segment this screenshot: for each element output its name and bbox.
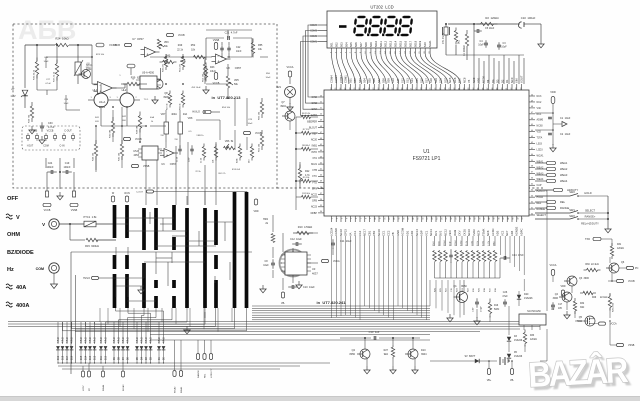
svg-text:R60 10k: R60 10k xyxy=(259,111,261,120)
ground C18 xyxy=(474,317,480,325)
svg-text:47: 47 xyxy=(320,132,322,134)
svg-text:47kΩ: 47kΩ xyxy=(100,337,103,343)
svg-text:1.2V: 1.2V xyxy=(10,94,16,98)
resistor R17 1.17k xyxy=(488,236,492,292)
svg-text:DV1: DV1 xyxy=(434,230,438,236)
misc analog wires 2 xyxy=(46,30,268,140)
svg-text:VCCB: VCCB xyxy=(47,130,54,133)
svg-text:71: 71 xyxy=(411,88,413,90)
svg-text:S13: S13 xyxy=(405,78,409,83)
svg-text:FTA: FTA xyxy=(313,157,318,160)
resistor R25 200&#937; xyxy=(438,236,442,292)
svg-text:R37 22.1k: R37 22.1k xyxy=(54,71,56,82)
ground top-right xyxy=(538,40,544,48)
svg-text:R31: R31 xyxy=(617,244,622,246)
svg-text:VCCB: VCCB xyxy=(135,138,142,141)
ground BZ1 xyxy=(287,103,293,111)
resistor C19 27nF xyxy=(449,236,453,292)
svg-text:R49: R49 xyxy=(178,44,183,47)
svg-text:39: 39 xyxy=(531,160,533,162)
svg-text:S18: S18 xyxy=(429,78,433,83)
buzzer BZ1 xyxy=(276,66,295,104)
diode D9 ladder xyxy=(112,346,116,363)
svg-text:C21 4.7nF: C21 4.7nF xyxy=(225,31,238,35)
svg-text:33: 33 xyxy=(531,195,533,197)
svg-text:S018: S018 xyxy=(413,40,417,47)
svg-text:FS9721 LP1: FS9721 LP1 xyxy=(413,156,441,162)
LCD segment pin S07 xyxy=(359,42,363,54)
svg-text:83: 83 xyxy=(468,88,470,90)
rotary switch contact bar x246 xyxy=(245,192,249,308)
terminal REL xyxy=(535,200,566,204)
wires u3 block xyxy=(273,233,333,290)
svg-text:S06: S06 xyxy=(354,42,358,47)
wire fan LCD to U1 xyxy=(332,54,461,85)
svg-text:VSSB: VSSB xyxy=(143,165,150,168)
diode D1 ladder xyxy=(157,346,161,363)
svg-text:R8 80k2: R8 80k2 xyxy=(302,145,311,147)
svg-text:S20: S20 xyxy=(423,42,427,47)
svg-text:WEA1: WEA1 xyxy=(180,386,183,393)
svg-text:HZ/DUTY: HZ/DUTY xyxy=(211,368,213,378)
resistor R18 0.09k xyxy=(482,236,486,292)
svg-text:INB1: INB1 xyxy=(312,145,318,148)
svg-text:81: 81 xyxy=(459,88,461,90)
svg-text:R16: R16 xyxy=(494,305,499,307)
svg-text:S04: S04 xyxy=(363,78,367,83)
svg-text:U4-A: U4-A xyxy=(99,100,106,104)
svg-text:42: 42 xyxy=(531,142,533,144)
terminal WEA1 xyxy=(535,161,568,165)
op-amp U8 OP07 xyxy=(212,54,242,70)
svg-text:SW2: SW2 xyxy=(569,214,575,218)
svg-text:R32: R32 xyxy=(580,303,585,305)
svg-text:VvDC: VvDC xyxy=(472,229,476,236)
rotary switch contact bar x127 xyxy=(125,205,129,308)
ground c30 xyxy=(39,136,45,144)
U1 right pins xyxy=(529,94,547,217)
labels connector bottom xyxy=(27,145,65,148)
LCD pin COM1 xyxy=(310,41,327,44)
resistor R35 68k xyxy=(110,117,115,138)
svg-text:40A: 40A xyxy=(150,116,154,119)
svg-text:+: + xyxy=(166,153,168,157)
svg-text:BEEPER: BEEPER xyxy=(307,120,317,123)
capacitor C22 10nF xyxy=(220,45,242,53)
resistor R40 22.1k xyxy=(160,55,187,64)
ground right cluster xyxy=(564,311,570,319)
LCD segment pin S010 xyxy=(374,40,378,53)
svg-text:VR7: VR7 xyxy=(161,113,166,116)
svg-text:22.1kΩ: 22.1kΩ xyxy=(600,297,608,299)
svg-text:C30: C30 xyxy=(48,122,53,125)
svg-text:35: 35 xyxy=(320,205,322,207)
wire mid rail y57 xyxy=(150,56,212,58)
svg-text:NC18: NC18 xyxy=(339,229,343,236)
resistor R28 230k xyxy=(608,294,614,313)
svg-text:3904: 3904 xyxy=(421,353,427,356)
svg-text:COM: COM xyxy=(36,267,44,271)
svg-text:AD2: AD2 xyxy=(410,230,414,236)
svg-text:NC3: NC3 xyxy=(537,95,542,98)
svg-text:49: 49 xyxy=(320,120,322,122)
switch SW2 HOLD xyxy=(535,190,608,197)
resistors U1 left feed xyxy=(296,113,318,199)
svg-text:80: 80 xyxy=(454,88,456,90)
resistor R45 10k xyxy=(119,140,124,161)
svg-text:R54 10k: R54 10k xyxy=(222,107,231,109)
resistor R21 0.99&#937; xyxy=(460,236,464,292)
terminal VDD cluster xyxy=(560,285,565,296)
rotary switch contact bar x205 xyxy=(203,208,207,308)
LCD segment pin S04 xyxy=(344,42,348,54)
resistor R1 200k xyxy=(463,30,469,56)
resistor R52 10k xyxy=(191,44,205,59)
LCD segment pin S01 xyxy=(330,42,334,54)
svg-text:R22: R22 xyxy=(305,170,310,173)
svg-text:470pF: 470pF xyxy=(481,305,483,312)
svg-text:VCCB: VCCB xyxy=(213,82,220,85)
svg-text:R12 80k: R12 80k xyxy=(302,193,311,195)
svg-text:75: 75 xyxy=(430,88,432,90)
svg-text:HC6: HC6 xyxy=(453,77,457,83)
svg-text:400A: 400A xyxy=(171,113,177,116)
svg-text:Q3 3906: Q3 3906 xyxy=(579,277,590,280)
svg-text:VR6 5k: VR6 5k xyxy=(225,140,234,143)
wire Q8 collector xyxy=(160,68,162,80)
svg-text:VR8: VR8 xyxy=(188,117,193,120)
svg-text:56: 56 xyxy=(340,88,342,90)
svg-text:ACDC: ACDC xyxy=(491,228,495,236)
labels connector top xyxy=(31,130,73,133)
svg-text:C24: C24 xyxy=(48,162,53,165)
svg-text:VC1: VC1 xyxy=(424,230,428,236)
svg-text:4: 4 xyxy=(345,218,347,219)
svg-text:+: + xyxy=(218,60,220,64)
svg-text:28: 28 xyxy=(459,218,461,220)
svg-text:SELECT: SELECT xyxy=(537,214,547,217)
rotary switch contact bar x216 xyxy=(214,210,218,308)
svg-text:43: 43 xyxy=(531,136,533,138)
svg-text:S01: S01 xyxy=(348,78,352,83)
svg-text:R29: R29 xyxy=(592,297,597,299)
svg-text:BLOUT: BLOUT xyxy=(309,126,318,129)
terminal VCCB u7 xyxy=(113,43,131,47)
capacitor C10b 41uF xyxy=(288,285,315,289)
wires analog lower mesh xyxy=(96,107,247,172)
svg-text:SW1: SW1 xyxy=(569,208,575,212)
svg-text:VED: VED xyxy=(448,230,452,236)
svg-text:8050: 8050 xyxy=(461,285,467,288)
svg-text:47kΩ: 47kΩ xyxy=(141,337,144,343)
svg-text:66: 66 xyxy=(388,88,390,90)
svg-text:I-OUT: I-OUT xyxy=(27,145,34,148)
svg-text:VSSB: VSSB xyxy=(628,344,635,347)
svg-text:S14: S14 xyxy=(410,78,414,83)
capacitor C21 4.7nF xyxy=(206,31,252,41)
svg-text:S012: S012 xyxy=(384,40,388,47)
svg-text:REL: REL xyxy=(560,200,566,204)
svg-text:9.01k: 9.01k xyxy=(477,241,479,246)
LCD decimal point 2 xyxy=(382,34,384,37)
resistor R16b 5W xyxy=(488,299,499,323)
svg-text:87: 87 xyxy=(487,88,489,90)
svg-text:U7 OP07: U7 OP07 xyxy=(132,37,144,41)
svg-text:25: 25 xyxy=(445,218,447,220)
svg-text:VB-: VB- xyxy=(281,302,285,305)
svg-text:41: 41 xyxy=(320,169,322,171)
terminal TXD xyxy=(585,237,612,246)
svg-text:D12: D12 xyxy=(95,355,97,360)
svg-text:NC5: NC5 xyxy=(448,77,452,83)
svg-text:S19: S19 xyxy=(434,78,438,83)
svg-text:R44 10k: R44 10k xyxy=(93,152,95,161)
svg-text:34: 34 xyxy=(320,211,322,213)
svg-text:АБВ: АБВ xyxy=(18,15,76,45)
terminal W xyxy=(111,192,115,202)
svg-text:93: 93 xyxy=(516,88,518,90)
resistor R34 70k xyxy=(29,102,34,123)
svg-text:4.7uF: 4.7uF xyxy=(45,83,51,85)
LCD segment pin S018 xyxy=(413,40,417,53)
capacitor C18* 470pF xyxy=(473,296,483,318)
svg-text:10nF: 10nF xyxy=(248,123,254,125)
svg-text:C17: C17 xyxy=(558,304,563,306)
wire U1 left feeds vertical xyxy=(295,117,297,210)
wire bar drops xyxy=(63,308,247,332)
svg-text:COM: COM xyxy=(43,145,49,148)
svg-text:CC1: CC1 xyxy=(382,230,386,236)
svg-text:REL: REL xyxy=(537,202,542,205)
svg-text:U5-A 4050: U5-A 4050 xyxy=(142,71,155,75)
svg-text:V5: V5 xyxy=(467,79,471,83)
wire bars interconnect mesh xyxy=(96,192,215,319)
resistor R44 10k xyxy=(93,140,98,161)
svg-text:D13: D13 xyxy=(90,355,92,360)
LCD segment pin S017 xyxy=(408,40,412,53)
svg-text:ZT: ZT xyxy=(11,87,15,91)
terminal WEA4 xyxy=(101,371,105,391)
svg-text:60: 60 xyxy=(359,88,361,90)
svg-text:S02: S02 xyxy=(334,42,338,47)
svg-text:D17: D17 xyxy=(67,355,69,360)
svg-text:30Ω: 30Ω xyxy=(580,307,585,309)
svg-text:100nF: 100nF xyxy=(63,166,71,169)
svg-text:C18*: C18* xyxy=(473,307,475,312)
svg-text:50: 50 xyxy=(320,114,322,116)
svg-text:R30 22.1kΩ: R30 22.1kΩ xyxy=(585,263,599,266)
svg-text:S08: S08 xyxy=(382,78,386,83)
svg-text:73: 73 xyxy=(421,88,423,90)
svg-text:10: 10 xyxy=(373,218,375,220)
svg-text:COM2: COM2 xyxy=(339,75,343,83)
svg-text:C26: C26 xyxy=(503,291,508,294)
svg-text:7002: 7002 xyxy=(577,320,583,323)
svg-text:HD1: HD1 xyxy=(477,77,481,83)
svg-text:S02: S02 xyxy=(353,78,357,83)
svg-text:R7 27k: R7 27k xyxy=(303,129,311,131)
svg-text:37: 37 xyxy=(531,172,533,174)
svg-text:1SS226: 1SS226 xyxy=(514,356,523,358)
ground bars 1 xyxy=(138,286,144,294)
svg-text:VDD: VDD xyxy=(550,90,556,94)
resistors right strip xyxy=(259,98,264,152)
svg-text:R48 22k: R48 22k xyxy=(163,63,165,72)
svg-text:47kΩ: 47kΩ xyxy=(122,337,125,343)
svg-text:70: 70 xyxy=(407,88,409,90)
svg-text:69: 69 xyxy=(402,88,404,90)
svg-text:47kΩ: 47kΩ xyxy=(145,337,148,343)
capacitor C8 10uF xyxy=(263,259,275,269)
svg-text:S15: S15 xyxy=(415,78,419,83)
svg-text:1SS226: 1SS226 xyxy=(524,297,533,300)
diode D18 ladder xyxy=(61,346,65,363)
svg-text:+: + xyxy=(147,53,149,57)
svg-text:8050: 8050 xyxy=(349,353,355,356)
svg-text:S17: S17 xyxy=(424,78,428,83)
svg-text:VC2: VC2 xyxy=(500,230,504,236)
svg-text:DFBP: DFBP xyxy=(311,212,318,215)
svg-text:VCCB: VCCB xyxy=(178,34,185,37)
capacitor C4 10uF xyxy=(478,40,488,48)
ground R27 xyxy=(390,366,396,374)
svg-text:47kΩ: 47kΩ xyxy=(113,337,116,343)
svg-text:CA1: CA1 xyxy=(353,230,357,236)
wire connector to pads xyxy=(46,158,74,191)
LCD segment pin S013 xyxy=(389,40,393,53)
svg-text:61: 61 xyxy=(364,88,366,90)
wire battery rail xyxy=(430,359,510,362)
svg-text:62: 62 xyxy=(369,88,371,90)
svg-text:S017: S017 xyxy=(408,40,412,47)
svg-text:10nF: 10nF xyxy=(236,50,242,53)
svg-text:NC7: NC7 xyxy=(505,230,509,236)
svg-text:OHM: OHM xyxy=(7,232,20,238)
svg-text:GP23: GP23 xyxy=(344,229,348,236)
svg-text:NC22: NC22 xyxy=(311,194,318,197)
svg-text:D10: D10 xyxy=(421,349,426,352)
resistor R53 10k xyxy=(203,63,208,83)
svg-text:44: 44 xyxy=(320,150,322,152)
svg-text:10nF: 10nF xyxy=(189,157,191,162)
svg-text:C13 1uF: C13 1uF xyxy=(369,330,380,334)
wires analog misc xyxy=(37,45,228,170)
svg-text:11: 11 xyxy=(378,218,380,220)
svg-text:HOLD: HOLD xyxy=(584,191,591,195)
svg-text:DV2: DV2 xyxy=(439,230,443,236)
svg-text:S015: S015 xyxy=(399,40,403,47)
svg-text:WCA3: WCA3 xyxy=(122,384,125,391)
svg-text:47kΩ: 47kΩ xyxy=(71,337,74,343)
LCD segment pin S016 xyxy=(403,40,407,53)
terminal VCCB u8 xyxy=(213,73,220,86)
svg-text:R50 1k: R50 1k xyxy=(180,102,182,110)
terminal WEA3 xyxy=(535,173,568,177)
wire right riser xyxy=(540,190,547,361)
svg-text:22.1k: 22.1k xyxy=(177,49,184,52)
resistor R29 22.1k xyxy=(580,291,597,302)
svg-text:R33: R33 xyxy=(530,335,535,337)
svg-text:D1: D1 xyxy=(505,79,509,83)
terminal WCA2 xyxy=(173,340,177,393)
resistor R55 xyxy=(251,39,263,58)
svg-text:Hz: Hz xyxy=(7,267,14,273)
svg-text:COM3: COM3 xyxy=(310,30,318,33)
LCD segment pin S012 xyxy=(384,40,388,53)
svg-text:49: 49 xyxy=(531,100,533,102)
svg-text:AD3: AD3 xyxy=(496,230,500,236)
svg-text:77: 77 xyxy=(440,88,442,90)
LCD pin COM3 xyxy=(310,30,327,33)
svg-text:R52: R52 xyxy=(191,44,196,47)
svg-text:HL2: HL2 xyxy=(122,88,127,92)
misc analog junction dots xyxy=(91,56,229,143)
svg-text:NC20: NC20 xyxy=(311,139,318,142)
terminal HV/LO analog xyxy=(192,110,220,113)
svg-text:27: 27 xyxy=(454,218,456,220)
svg-text:VR5: VR5 xyxy=(234,79,239,82)
svg-text:33: 33 xyxy=(483,218,485,220)
svg-text:94: 94 xyxy=(521,88,523,90)
svg-text:R27: R27 xyxy=(384,349,389,352)
LCD segment pin S014 xyxy=(394,40,398,53)
svg-text:W-IN: W-IN xyxy=(124,192,130,195)
label R49 22.1k xyxy=(177,44,184,52)
svg-text:930kΩ: 930kΩ xyxy=(455,240,457,246)
rotary switch contact bar x174 xyxy=(172,205,176,308)
svg-text:WEA2: WEA2 xyxy=(560,167,568,171)
terminal VSSB mid xyxy=(127,64,135,75)
svg-text:10uF: 10uF xyxy=(478,44,484,47)
watermark BAZAR logo xyxy=(527,350,632,399)
svg-text:V33: V33 xyxy=(537,131,542,134)
terminal WEA1 xyxy=(179,340,183,393)
terminal RANGE xyxy=(535,206,569,210)
svg-text:REL+HZ/DUTY: REL+HZ/DUTY xyxy=(581,222,599,226)
svg-text:72: 72 xyxy=(416,88,418,90)
LCD decimal point 1 xyxy=(367,34,369,37)
diode D16 ladder xyxy=(70,346,74,363)
svg-text:30: 30 xyxy=(531,213,533,215)
svg-text:NC0: NC0 xyxy=(510,77,514,83)
svg-text:D4: D4 xyxy=(486,79,490,83)
svg-text:GND: GND xyxy=(396,230,400,236)
potentiometer VR6 5k xyxy=(224,140,235,150)
svg-text:NC60: NC60 xyxy=(537,125,544,128)
svg-text:ACOM: ACOM xyxy=(401,227,405,236)
diode D14 ladder xyxy=(84,346,88,363)
ground C1 C2 xyxy=(550,144,556,152)
svg-text:T3TA: T3TA xyxy=(537,137,543,140)
LCD segment pin S09 xyxy=(369,42,373,54)
svg-text:92: 92 xyxy=(511,88,513,90)
svg-text:NC8: NC8 xyxy=(462,77,466,83)
U1 left pins xyxy=(307,95,324,215)
diode D20 1SS226 xyxy=(517,291,533,306)
svg-text:R24 10kΩ: R24 10kΩ xyxy=(55,37,68,41)
svg-text:47kΩ: 47kΩ xyxy=(136,337,139,343)
svg-text:R23 10k: R23 10k xyxy=(96,54,105,56)
transistor Q2 8050 xyxy=(349,338,370,366)
crystal XT1 xyxy=(443,24,450,44)
capacitor C17 105 xyxy=(551,302,563,310)
svg-text:R1 200kΩ: R1 200kΩ xyxy=(463,45,466,56)
resistor R48 xyxy=(163,54,168,72)
svg-text:85: 85 xyxy=(478,88,480,90)
connector pads xyxy=(27,133,75,141)
svg-text:NC30: NC30 xyxy=(481,76,485,83)
svg-text:SG21: SG21 xyxy=(428,40,432,47)
